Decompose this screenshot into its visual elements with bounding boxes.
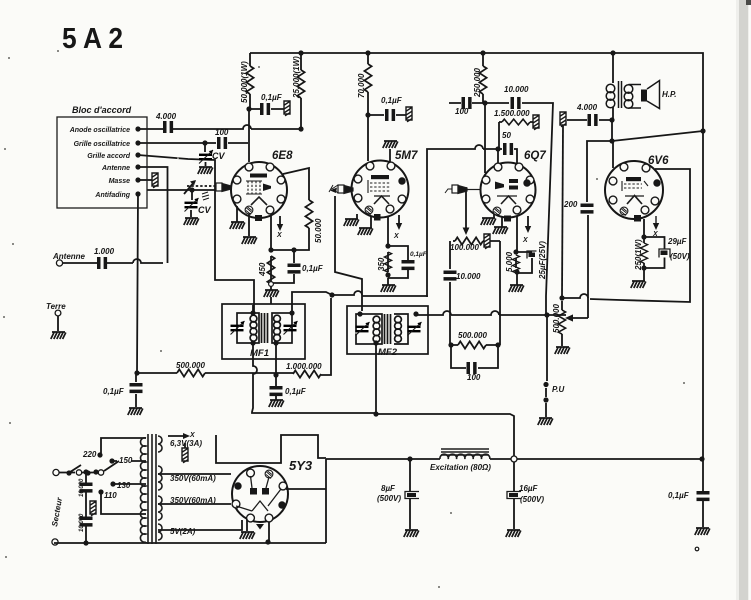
svg-text:Terre: Terre	[46, 302, 66, 311]
svg-text:Antenne: Antenne	[101, 165, 130, 172]
svg-text:500.000: 500.000	[176, 361, 205, 370]
svg-text:5M7: 5M7	[395, 150, 418, 162]
svg-text:Grille oscillatrice: Grille oscillatrice	[74, 141, 131, 148]
svg-text:220: 220	[82, 450, 97, 459]
svg-text:0,1µF: 0,1µF	[103, 387, 125, 396]
svg-text:CV: CV	[198, 205, 211, 215]
svg-text:500.000: 500.000	[458, 331, 487, 340]
svg-text:Masse: Masse	[109, 178, 131, 185]
svg-text:250(1W): 250(1W)	[634, 239, 643, 271]
svg-text:10.000: 10.000	[456, 272, 481, 281]
svg-text:0,1µF: 0,1µF	[410, 251, 428, 258]
svg-text:0,1µF: 0,1µF	[285, 387, 307, 396]
svg-text:5V(2A): 5V(2A)	[170, 527, 196, 536]
svg-text:0,1µF: 0,1µF	[261, 93, 283, 102]
svg-text:10.000: 10.000	[504, 85, 529, 94]
svg-text:10.000: 10.000	[79, 513, 85, 532]
svg-text:6,3V(3A): 6,3V(3A)	[170, 439, 202, 448]
svg-text:100: 100	[467, 373, 481, 382]
svg-text:Antifading: Antifading	[94, 192, 130, 199]
svg-text:10.000: 10.000	[79, 478, 85, 497]
svg-text:Bloc d'accord: Bloc d'accord	[72, 105, 132, 115]
svg-text:(50V): (50V)	[670, 252, 690, 261]
svg-text:70.000: 70.000	[357, 73, 366, 98]
svg-text:6Q7: 6Q7	[524, 150, 546, 162]
svg-text:0,1µF: 0,1µF	[668, 491, 690, 500]
svg-text:CV: CV	[212, 151, 225, 161]
svg-text:150: 150	[119, 456, 133, 465]
svg-text:Anode oscillatrice: Anode oscillatrice	[69, 127, 130, 134]
svg-text:1.500.000: 1.500.000	[494, 109, 530, 118]
svg-text:1.000.000: 1.000.000	[286, 362, 322, 371]
svg-text:100.000: 100.000	[450, 243, 479, 252]
svg-text:MF2: MF2	[378, 347, 398, 358]
svg-text:4.000: 4.000	[576, 103, 598, 112]
svg-text:Antenne: Antenne	[52, 252, 86, 261]
svg-text:6E8: 6E8	[272, 150, 293, 162]
svg-text:450: 450	[258, 262, 267, 277]
svg-text:Excitation (80Ω): Excitation (80Ω)	[430, 463, 491, 472]
svg-text:250.000: 250.000	[473, 68, 482, 98]
svg-text:200: 200	[563, 200, 578, 209]
svg-text:Grille accord: Grille accord	[87, 153, 131, 160]
svg-text:29µF: 29µF	[667, 237, 688, 246]
svg-text:50.000(1W): 50.000(1W)	[240, 61, 249, 103]
svg-text:(500V): (500V)	[377, 494, 401, 503]
svg-text:8µF: 8µF	[381, 484, 396, 493]
svg-text:25.000(1W): 25.000(1W)	[292, 56, 301, 99]
svg-text:50: 50	[502, 131, 511, 140]
svg-text:4.000: 4.000	[155, 112, 177, 121]
svg-text:100: 100	[455, 107, 469, 116]
svg-text:5Y3: 5Y3	[289, 458, 313, 473]
svg-text:16µF: 16µF	[519, 484, 539, 493]
svg-text:350: 350	[377, 257, 386, 271]
svg-text:50.000: 50.000	[314, 218, 323, 243]
svg-text:100: 100	[215, 128, 229, 137]
svg-text:5.000: 5.000	[505, 251, 514, 272]
svg-text:350V(60mA): 350V(60mA)	[170, 474, 216, 483]
svg-text:5 A 2: 5 A 2	[62, 23, 123, 55]
svg-text:25µF(25V): 25µF(25V)	[538, 241, 547, 280]
svg-text:P.U: P.U	[552, 385, 565, 394]
svg-text:130: 130	[117, 481, 131, 490]
svg-text:MF1: MF1	[250, 348, 269, 359]
svg-text:500.000: 500.000	[552, 304, 561, 333]
svg-text:6V6: 6V6	[648, 155, 669, 167]
svg-text:110: 110	[104, 491, 117, 500]
svg-text:0,1µF: 0,1µF	[302, 264, 324, 273]
svg-text:(500V): (500V)	[520, 495, 544, 504]
svg-text:H.P.: H.P.	[662, 90, 677, 99]
svg-text:1.000: 1.000	[94, 247, 115, 256]
svg-text:0,1µF: 0,1µF	[381, 96, 403, 105]
svg-text:350V(60mA): 350V(60mA)	[170, 496, 216, 505]
